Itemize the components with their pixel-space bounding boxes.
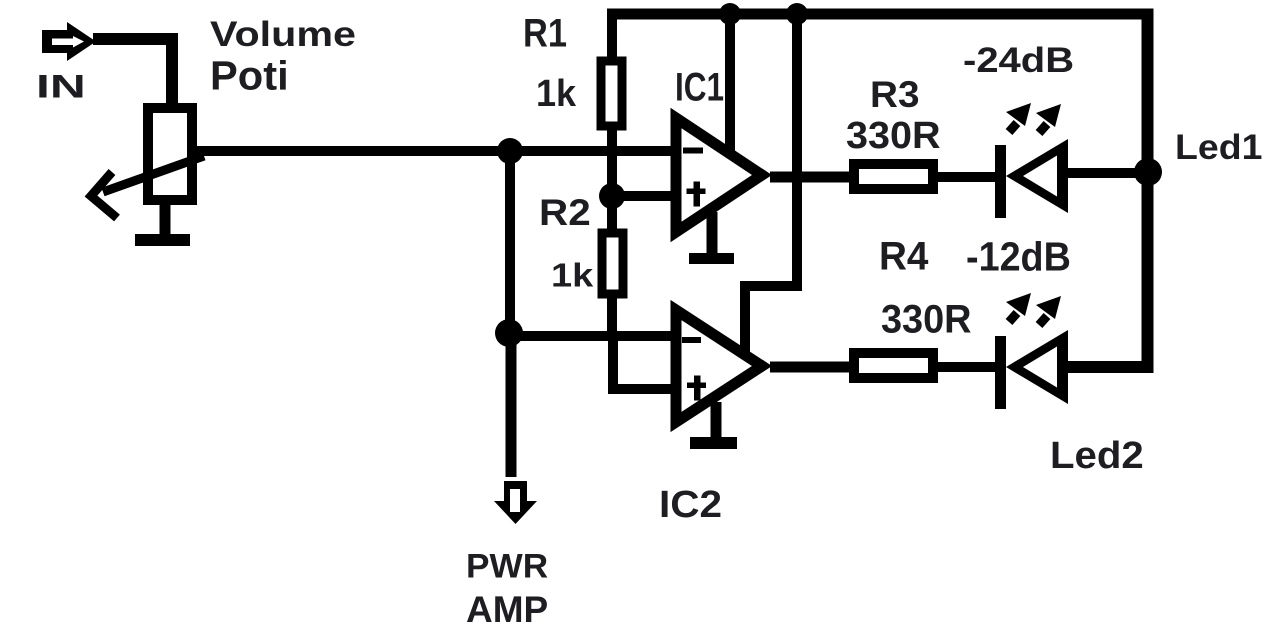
resistor R1	[607, 14, 617, 61]
label AMP	[466, 591, 548, 628]
arrow PWR AMP	[494, 481, 537, 524]
label PWR	[466, 549, 548, 583]
label Volume	[210, 16, 356, 52]
label Led2	[1050, 436, 1144, 474]
label IN	[36, 70, 86, 103]
node A	[497, 138, 523, 164]
label 330R (R3)	[846, 116, 941, 154]
wire R4 to Led2	[938, 362, 997, 372]
resistor R4	[854, 353, 933, 378]
label -24dB	[963, 42, 1074, 78]
ground (IC1)	[707, 212, 718, 253]
wire IC2 output to R4	[770, 362, 854, 373]
wire right rail down to Led2	[1067, 9, 1148, 368]
wire Led1 to node F	[1067, 168, 1148, 178]
wire R3 to Led1	[938, 172, 997, 182]
wire IN to potentiometer	[93, 39, 178, 105]
wire IC1 output to R3	[770, 172, 851, 183]
resistor R2	[602, 233, 623, 294]
node D	[719, 3, 741, 25]
connector IN arrow	[42, 22, 96, 61]
ground (IC2)	[711, 402, 722, 437]
wire top rail	[607, 9, 1148, 20]
label 330R (R4)	[881, 299, 972, 339]
wire R2 bottom to IC2 non-inverting input	[613, 336, 672, 389]
node E	[786, 3, 808, 25]
LED Led2	[995, 293, 1068, 409]
wire node D to IC1 top edge	[725, 14, 735, 152]
IC1 minus sign	[683, 148, 703, 154]
label R2	[539, 194, 591, 231]
potentiometer Volume Poti body	[148, 108, 192, 200]
label -12dB	[966, 236, 1071, 277]
wire node B to IC2 inverting input	[509, 331, 674, 341]
wire node C to IC1 non-inverting input	[612, 191, 674, 201]
wire node B down to PWR AMP	[506, 336, 517, 477]
label 1k (R2)	[551, 259, 593, 292]
label IC2	[659, 485, 722, 523]
LED Led1	[995, 103, 1068, 218]
label R1	[523, 13, 567, 53]
label Led1	[1175, 129, 1262, 165]
op-amp IC1	[676, 118, 762, 232]
wire node A to node B	[505, 151, 515, 336]
wire R1 bottom to R2 top	[607, 151, 617, 233]
wire node E down (feedback to IC2)	[745, 14, 797, 352]
resistor R3	[854, 164, 933, 189]
label R3	[870, 76, 920, 113]
IC2 minus sign	[682, 337, 701, 343]
op-amp IC2	[676, 310, 762, 422]
ground (pot)	[160, 205, 171, 234]
node B	[495, 319, 523, 347]
label Poti	[210, 55, 289, 96]
potentiometer wiper arrow	[91, 156, 204, 218]
label 1k (R1)	[536, 74, 576, 112]
IC2 plus sign	[687, 383, 706, 389]
node F	[1134, 158, 1162, 186]
IC1 plus sign	[687, 189, 706, 195]
label IC1	[675, 67, 724, 107]
wire pot wiper to node A and IC1 inverting input	[197, 146, 671, 156]
node C	[599, 183, 625, 209]
label R4	[879, 236, 928, 276]
